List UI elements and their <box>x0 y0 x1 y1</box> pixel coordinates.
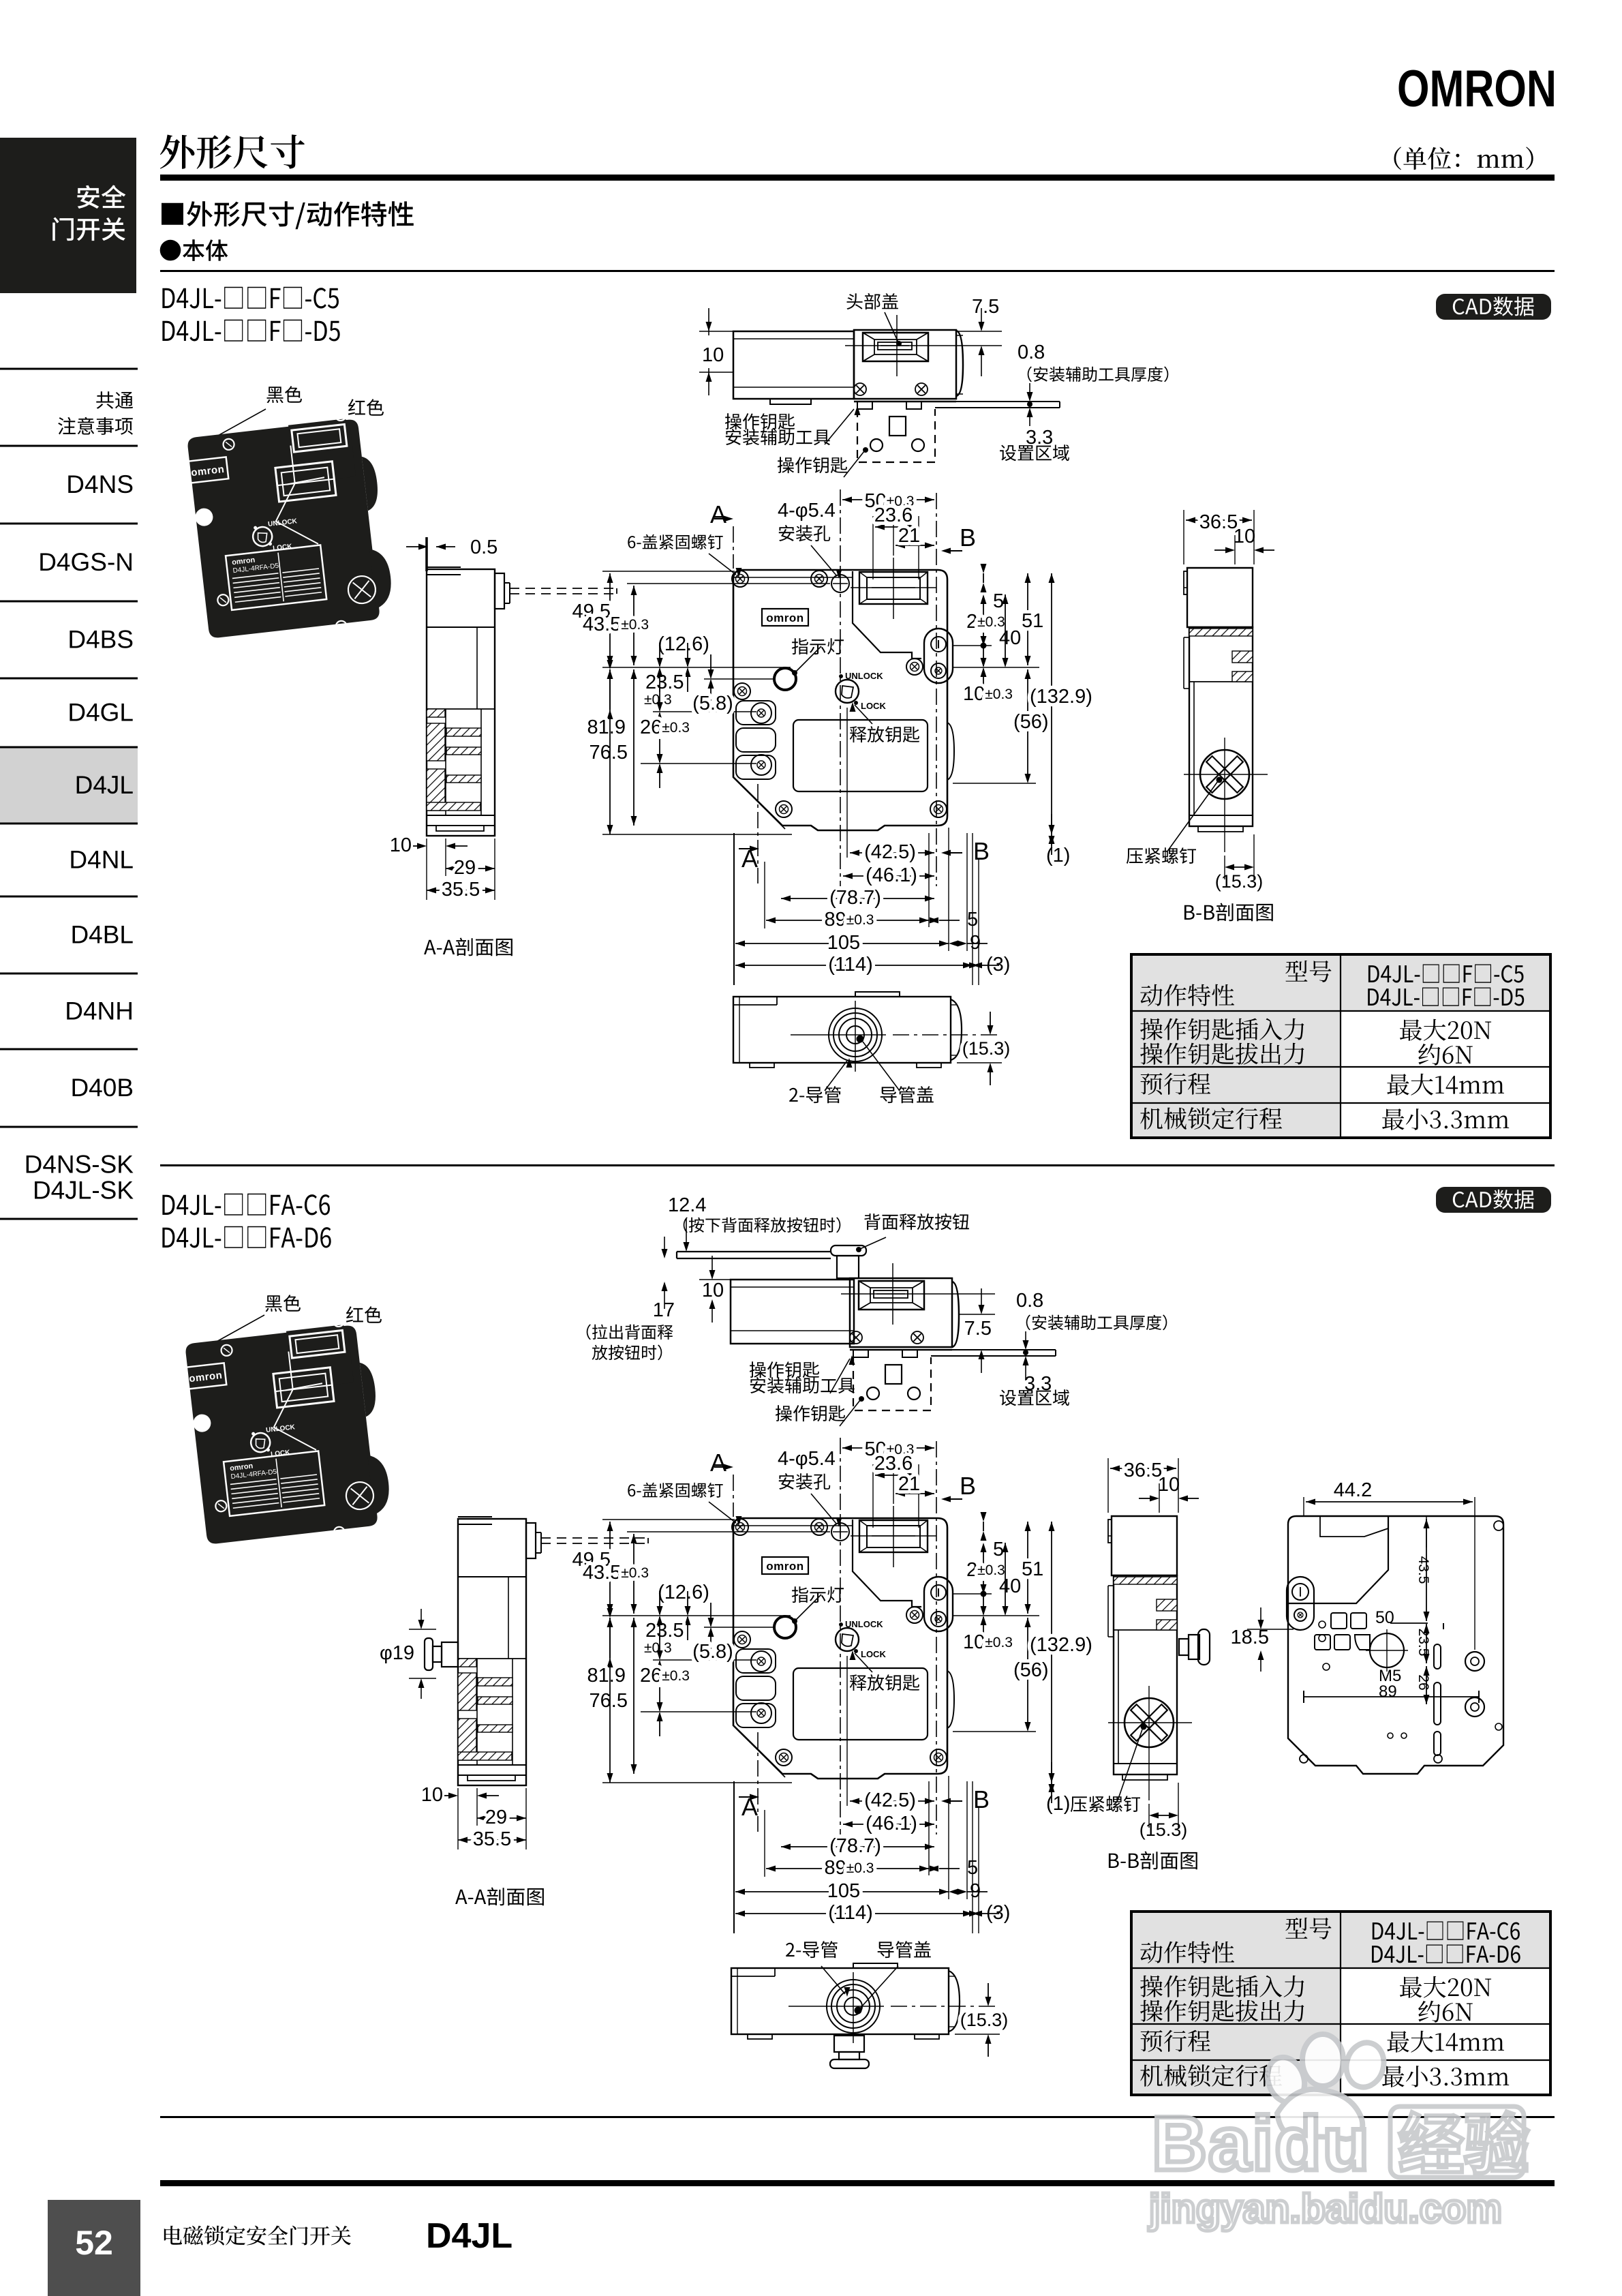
svg-text:9: 9 <box>970 932 981 954</box>
svg-text:(12.6): (12.6) <box>658 633 709 655</box>
svg-text:omron: omron <box>766 611 804 624</box>
svg-text:43.5: 43.5 <box>1416 1556 1431 1584</box>
svg-text:10: 10 <box>702 344 724 366</box>
svg-text:12.4: 12.4 <box>668 1194 706 1216</box>
svg-text:OMRON: OMRON <box>1397 60 1557 118</box>
svg-text:23.5: 23.5 <box>1416 1629 1431 1657</box>
svg-text:36.5: 36.5 <box>1199 511 1238 533</box>
svg-text:0.5: 0.5 <box>470 537 498 558</box>
svg-text:(56): (56) <box>1013 711 1049 733</box>
bottom dims <box>733 833 735 985</box>
svg-text:B: B <box>960 524 976 552</box>
svg-text:LOCK: LOCK <box>861 701 886 711</box>
B-B pressing screw <box>1200 750 1249 799</box>
right rings <box>1465 1652 1484 1671</box>
omron plate <box>762 609 808 626</box>
svg-text:43.5±0.3: 43.5±0.3 <box>583 614 649 635</box>
aid tool thin bar <box>935 401 1060 402</box>
A-A key dashed <box>510 588 617 589</box>
svg-text:(15.3): (15.3) <box>1215 871 1264 892</box>
conduit circles <box>846 1026 864 1044</box>
svg-text:105: 105 <box>827 932 860 954</box>
svg-text:89±0.3: 89±0.3 <box>825 909 874 931</box>
baidu watermark <box>1148 2034 1528 2231</box>
sidebar tab 安全门开关 <box>0 138 136 293</box>
label 释放钥匙 <box>850 726 919 742</box>
wall line + 0.5 dim <box>425 537 428 571</box>
label 操作钥匙 <box>778 457 847 473</box>
top view head 2 <box>850 1278 952 1347</box>
dim 1 <box>953 825 1063 826</box>
unit note <box>1394 147 1533 170</box>
aid tool thin bar 2 <box>931 1349 1056 1350</box>
label area <box>793 720 928 791</box>
svg-text:50: 50 <box>1375 1608 1394 1627</box>
A-A label <box>424 938 512 956</box>
svg-text:10±0.3: 10±0.3 <box>963 683 1013 705</box>
svg-text:B: B <box>973 837 990 865</box>
svg-text:89: 89 <box>1379 1682 1397 1701</box>
svg-text:D4BL: D4BL <box>70 921 134 949</box>
vertical dim column <box>1426 1516 1427 1547</box>
svg-text:(114): (114) <box>828 954 873 976</box>
svg-text:D4NS-SK: D4NS-SK <box>25 1151 134 1179</box>
small squares <box>1331 1613 1347 1629</box>
back plate outline <box>1288 1516 1503 1774</box>
svg-text:5: 5 <box>967 909 978 931</box>
svg-text:D4JL-SK: D4JL-SK <box>33 1177 134 1205</box>
svg-text:51: 51 <box>1022 610 1043 632</box>
svg-text:D4GS-N: D4GS-N <box>38 548 134 576</box>
heading 本体 <box>160 239 228 261</box>
dim 15.3 <box>1224 856 1225 879</box>
sidebar menu <box>0 747 138 824</box>
label 压紧螺钉 s2 <box>1071 1796 1140 1812</box>
svg-text:10: 10 <box>1234 526 1255 547</box>
labels 2-导管 导管盖 <box>789 1086 841 1103</box>
svg-text:(1): (1) <box>1046 845 1070 866</box>
unlock dial <box>836 680 859 703</box>
labels 操作钥匙 s2 <box>750 1361 819 1378</box>
dim 44.2 <box>1303 1497 1304 1516</box>
side release button (B-B) <box>1179 1639 1189 1655</box>
svg-text:0.8: 0.8 <box>1016 1290 1043 1312</box>
big circle M5 <box>1370 1633 1404 1667</box>
svg-text:D4NH: D4NH <box>65 997 134 1025</box>
head screws <box>854 383 866 395</box>
corner screws <box>732 571 748 587</box>
label 6-盖紧固螺钉 <box>628 534 722 549</box>
label 背面释放按钮 <box>864 1213 969 1230</box>
dim 15.3 bottom <box>886 1034 1002 1036</box>
svg-text:(132.9): (132.9) <box>1030 686 1092 708</box>
CAD badge 2 <box>1436 1187 1551 1213</box>
key slot <box>859 572 928 604</box>
right dims <box>947 571 1063 572</box>
svg-text:18.5: 18.5 <box>1231 1627 1269 1648</box>
right oval tab <box>924 629 953 683</box>
svg-text:4-φ5.4: 4-φ5.4 <box>778 500 836 522</box>
A-A body outline <box>427 569 495 836</box>
label 头部盖 <box>847 293 898 309</box>
A-A hatching <box>427 709 445 717</box>
small holes <box>1494 1521 1503 1530</box>
product photo (black switch) <box>185 1325 378 1545</box>
mounting hole <box>831 575 849 592</box>
right slots <box>1434 1644 1441 1669</box>
section 2 models <box>162 1194 330 1215</box>
right bulge <box>947 723 954 780</box>
footer product name <box>164 2226 351 2246</box>
top view head <box>854 330 956 399</box>
svg-text:81.9: 81.9 <box>587 716 626 738</box>
svg-text:D4JL: D4JL <box>426 2216 512 2256</box>
svg-text:29: 29 <box>454 857 476 879</box>
A-A dims <box>426 839 427 900</box>
svg-text:D4NS: D4NS <box>66 470 134 498</box>
color labels 1 <box>267 386 303 403</box>
svg-text:jingyan.baidu.com: jingyan.baidu.com <box>1148 2186 1502 2231</box>
top view body <box>733 331 854 399</box>
front view outline <box>733 570 947 830</box>
B-B hatching <box>1189 629 1253 636</box>
labels above <box>786 1941 838 1958</box>
rear release button <box>831 1245 866 1256</box>
section 1 models <box>162 287 339 309</box>
svg-text:21: 21 <box>898 525 920 547</box>
top dims <box>842 499 934 500</box>
page number box <box>48 2200 140 2296</box>
svg-text:UNLOCK: UNLOCK <box>845 671 883 681</box>
svg-text:D4GL: D4GL <box>67 699 134 727</box>
φ19 release button (A-A) <box>425 1638 433 1670</box>
svg-text:7.5: 7.5 <box>964 1318 992 1340</box>
oval slot <box>1287 1577 1314 1630</box>
svg-text:10: 10 <box>390 834 412 856</box>
svg-text:0.8: 0.8 <box>1017 342 1045 363</box>
svg-text:(78.7): (78.7) <box>829 887 881 909</box>
CAD badge 1 <box>1436 294 1551 320</box>
left tabs <box>736 701 776 725</box>
svg-text:(46.1): (46.1) <box>866 864 917 886</box>
head boundary <box>853 571 921 659</box>
svg-text:23.5: 23.5 <box>645 671 684 693</box>
release rod <box>677 1251 831 1252</box>
bottom view body <box>733 997 951 1063</box>
svg-text:(15.3): (15.3) <box>962 1038 1011 1059</box>
heading 外形尺寸/动作特性 <box>162 201 414 229</box>
bottom release button <box>834 2036 864 2052</box>
indicator light <box>774 668 796 690</box>
svg-text:26±0.3: 26±0.3 <box>640 716 690 738</box>
svg-text:(42.5): (42.5) <box>864 841 916 863</box>
svg-text:10: 10 <box>702 1280 724 1301</box>
mounting aid plate <box>854 401 956 403</box>
svg-text:(5.8): (5.8) <box>692 693 733 714</box>
product photo (black switch) <box>187 419 380 639</box>
label 压紧螺钉 s1 <box>1127 847 1196 864</box>
top view body 2 <box>731 1280 854 1344</box>
mounting aid plate 2 <box>850 1349 952 1351</box>
B-B label <box>1184 903 1273 922</box>
label 指示灯 <box>792 638 844 654</box>
B-B body outline <box>1187 568 1253 627</box>
svg-text:23.6: 23.6 <box>874 504 913 526</box>
left dims <box>602 571 735 572</box>
svg-text:D4NL: D4NL <box>69 846 134 874</box>
svg-text:44.2: 44.2 <box>1334 1479 1372 1501</box>
label 操作钥匙安装辅助工具 <box>725 413 795 429</box>
svg-text:26: 26 <box>1416 1674 1431 1690</box>
B-B dims <box>1183 510 1184 564</box>
svg-text:35.5: 35.5 <box>442 879 480 901</box>
title 外形尺寸 <box>160 134 305 168</box>
color labels 2 <box>266 1295 301 1312</box>
svg-text:52: 52 <box>75 2224 113 2262</box>
svg-text:7.5: 7.5 <box>972 296 999 318</box>
svg-text:(3): (3) <box>986 954 1010 976</box>
svg-text:φ19: φ19 <box>380 1642 414 1664</box>
svg-text:76.5: 76.5 <box>590 742 628 764</box>
svg-text:D4JL: D4JL <box>75 771 134 799</box>
svg-text:17: 17 <box>653 1299 675 1321</box>
svg-text:Baidu: Baidu <box>1152 2101 1371 2186</box>
table spec <box>1131 954 1550 1138</box>
centerlines <box>733 526 734 569</box>
head housing block <box>1288 1516 1388 1603</box>
svg-text:40: 40 <box>999 627 1021 649</box>
svg-text:D40B: D40B <box>70 1074 134 1102</box>
svg-text:A: A <box>710 500 726 528</box>
svg-text:D4BS: D4BS <box>67 626 134 654</box>
svg-text:5: 5 <box>993 590 1004 612</box>
